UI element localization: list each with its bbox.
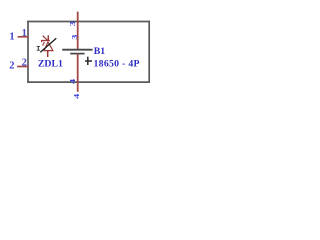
svg-text:4: 4 [72, 93, 80, 99]
pin number 1 [22, 28, 27, 39]
diode ZDL1 left tail diagonal [43, 42, 45, 46]
battery B1 positive plate [62, 49, 92, 51]
diode ZDL1 upper-left diagonal [43, 36, 49, 41]
svg-text:3: 3 [70, 34, 78, 40]
svg-text:1: 1 [22, 28, 27, 39]
battery B1 pin number 4 upper [68, 78, 76, 84]
svg-text:4: 4 [68, 78, 76, 84]
wire top segment [27, 21, 150, 23]
diode ZDL1 DNP cross arm [40, 38, 56, 52]
label B1 [94, 46, 106, 57]
battery B1 pin number 3 upper [68, 21, 76, 27]
pin number 2 [22, 58, 27, 69]
battery B1 pin number 3 lower [70, 34, 78, 40]
battery B1 plus sign [85, 57, 92, 65]
wire left segment [27, 21, 29, 83]
label ZDL1 [38, 58, 63, 69]
battery B1 bottom stem [77, 54, 79, 92]
pin name 2 [9, 61, 14, 72]
wire bottom segment [27, 81, 150, 83]
svg-text:ZDL1: ZDL1 [38, 58, 63, 69]
diode ZDL1 top stem [47, 35, 49, 40]
value 18650 - 4P [94, 58, 140, 69]
svg-text:3: 3 [68, 21, 76, 27]
pin name 1 [9, 32, 14, 43]
svg-text:1: 1 [9, 32, 14, 43]
battery B1 pin number 4 lower [72, 93, 80, 99]
diode ZDL1 triangle [44, 42, 53, 51]
wire right segment [148, 21, 150, 83]
battery B1 top stem [77, 12, 79, 50]
pin 1 [18, 36, 29, 38]
svg-text:2: 2 [22, 58, 27, 69]
battery B1 negative plate [70, 53, 84, 55]
pin 2 [17, 66, 28, 68]
diode ZDL1 bottom stem [47, 51, 49, 57]
svg-text:2: 2 [9, 61, 14, 72]
svg-text:B1: B1 [94, 46, 106, 57]
diode ZDL1 zener bar [42, 41, 50, 43]
svg-text:18650 - 4P: 18650 - 4P [94, 58, 140, 69]
diode ZDL1 pin 1 mark [37, 46, 40, 50]
